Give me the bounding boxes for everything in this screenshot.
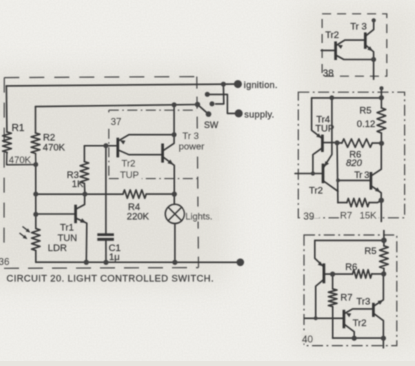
svg-text:36: 36 — [0, 257, 10, 268]
svg-text:470K: 470K — [43, 143, 66, 154]
svg-text:R1: R1 — [12, 123, 25, 134]
svg-text:1K: 1K — [72, 179, 84, 190]
svg-text:CIRCUIT 20. LIGHT CONTROLLED S: CIRCUIT 20. LIGHT CONTROLLED SWITCH. — [7, 272, 215, 283]
svg-text:220K: 220K — [127, 212, 150, 223]
svg-text:R5: R5 — [359, 105, 371, 116]
svg-text:Tr3: Tr3 — [356, 297, 370, 308]
svg-text:TUP: TUP — [120, 170, 139, 181]
svg-text:Tr1: Tr1 — [60, 223, 74, 234]
svg-text:R7: R7 — [340, 210, 352, 221]
svg-text:Lights.: Lights. — [185, 211, 212, 221]
svg-text:SW: SW — [204, 120, 219, 130]
svg-text:Tr2: Tr2 — [325, 30, 339, 41]
svg-text:R7: R7 — [340, 292, 352, 303]
svg-text:power: power — [179, 141, 205, 152]
svg-text:R6: R6 — [345, 262, 357, 273]
svg-text:Tr2: Tr2 — [122, 158, 136, 169]
svg-text:470K: 470K — [9, 155, 32, 166]
svg-text:supply.: supply. — [244, 110, 274, 120]
svg-text:39: 39 — [303, 211, 314, 222]
svg-text:820: 820 — [346, 158, 363, 169]
svg-text:ignition.: ignition. — [244, 80, 278, 90]
svg-text:Tr2: Tr2 — [353, 318, 367, 329]
svg-text:LDR: LDR — [48, 243, 67, 254]
svg-text:R5: R5 — [364, 246, 376, 257]
svg-text:Tr 3: Tr 3 — [354, 170, 369, 180]
svg-text:1μ: 1μ — [109, 252, 120, 263]
svg-text:40: 40 — [302, 335, 313, 346]
svg-text:15K: 15K — [360, 210, 378, 221]
svg-text:TUP: TUP — [315, 124, 334, 135]
svg-text:38: 38 — [323, 68, 334, 79]
svg-text:37: 37 — [111, 117, 122, 128]
svg-text:Tr 3: Tr 3 — [350, 21, 367, 32]
svg-text:Tr2: Tr2 — [309, 185, 323, 196]
svg-text:0.12: 0.12 — [357, 119, 376, 130]
